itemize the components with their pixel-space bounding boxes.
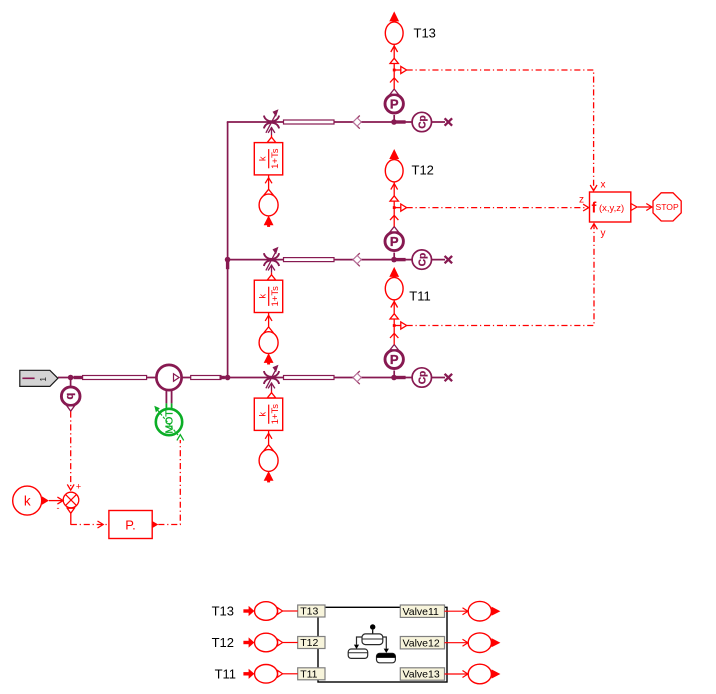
pipe L1 (tank to pump) xyxy=(83,376,147,380)
pipe L2 (pump to manifold) xyxy=(191,376,221,380)
signal wire k to summator xyxy=(49,497,63,504)
Cp sensor + closed end branch 3 xyxy=(391,368,452,387)
svg-text:y: y xyxy=(601,228,606,239)
svg-text:T11: T11 xyxy=(215,666,236,681)
wire: left vertical manifold xyxy=(227,122,229,378)
valve V3 with transfer function xyxy=(254,365,282,483)
svg-text:-: - xyxy=(57,503,60,513)
wire: pump supply line xyxy=(58,377,445,379)
port box T13 xyxy=(298,605,325,618)
signal wire f to STOP xyxy=(638,204,653,211)
summator output port xyxy=(67,508,74,513)
svg-text:T13: T13 xyxy=(300,606,318,618)
Cp sensor + closed end branch 1 xyxy=(391,112,452,131)
function block f(x,y,z) xyxy=(579,180,637,240)
svg-text:z: z xyxy=(579,195,584,206)
junction tank tee xyxy=(68,375,83,381)
pressure sensor column T11 xyxy=(385,267,407,378)
svg-text:STOP: STOP xyxy=(655,202,679,212)
pressure sensor column T12 xyxy=(385,149,407,260)
input connector T11 xyxy=(243,665,297,684)
statechart icon xyxy=(348,624,395,663)
svg-text:x: x xyxy=(601,180,606,191)
svg-text:d: d xyxy=(64,393,76,400)
svg-text:f: f xyxy=(592,201,597,217)
svg-text:Valve12: Valve12 xyxy=(403,637,440,649)
svg-text:T12: T12 xyxy=(412,163,434,178)
signal wire d to summator xyxy=(70,412,72,490)
signal wire T12 to f block z input xyxy=(407,204,589,211)
signal wire controller to motor xyxy=(158,435,183,525)
signal wire T11 to f block y input xyxy=(407,224,598,326)
svg-text:+: + xyxy=(76,482,81,492)
node marker branch 1 xyxy=(353,116,361,129)
pipe branch 2 xyxy=(284,258,335,262)
port box Valve13 xyxy=(400,668,444,681)
pump U1 xyxy=(156,365,181,390)
svg-text:k: k xyxy=(24,493,31,508)
svg-text:T13: T13 xyxy=(414,25,436,40)
shaft pump-motor xyxy=(166,390,171,408)
pressure sensor d xyxy=(61,378,80,411)
motor MOT xyxy=(154,406,182,435)
output connector Valve12 xyxy=(445,633,501,653)
svg-text:(x,y,z): (x,y,z) xyxy=(599,203,624,214)
svg-text:1: 1 xyxy=(38,377,48,382)
input connector T13 xyxy=(243,602,297,621)
junction manifold/branch3 xyxy=(220,375,231,381)
output connector Valve11 xyxy=(445,601,501,621)
svg-text:Valve11: Valve11 xyxy=(403,606,440,618)
node marker branch 3 xyxy=(353,371,361,384)
svg-text:T13: T13 xyxy=(212,604,234,619)
output connector Valve13 xyxy=(445,664,501,684)
node marker branch 2 xyxy=(353,253,361,266)
summator S1 xyxy=(57,482,82,514)
svg-text:T12: T12 xyxy=(300,637,318,649)
port box T12 xyxy=(298,637,325,650)
controller P. xyxy=(109,511,158,539)
statechart block xyxy=(318,607,447,682)
Cp sensor + closed end branch 2 xyxy=(391,250,452,269)
svg-text:T11: T11 xyxy=(409,289,430,304)
valve V2 with transfer function xyxy=(254,247,282,365)
port box Valve11 xyxy=(400,605,444,618)
wire: branch 2 line xyxy=(228,259,445,261)
pressure sensor column T13 xyxy=(385,11,407,122)
port box T11 xyxy=(298,668,325,681)
pipe branch 3 xyxy=(284,376,335,380)
junction manifold/branch2 xyxy=(225,257,231,269)
pipe branch 1 xyxy=(284,120,335,124)
signal wire summator to controller xyxy=(71,514,109,529)
valve V1 with transfer function xyxy=(254,109,282,227)
signal wire T13 to f block x input xyxy=(407,70,597,191)
constant k xyxy=(13,486,49,515)
svg-text:T11: T11 xyxy=(300,669,317,681)
boundary tag (pressure source) xyxy=(20,370,58,386)
svg-text:P.: P. xyxy=(125,517,136,532)
port box Valve12 xyxy=(400,637,444,650)
svg-text:T12: T12 xyxy=(212,635,234,650)
input connector T12 xyxy=(243,633,297,652)
wire: branch 1 line xyxy=(227,121,445,123)
STOP block xyxy=(653,193,681,221)
svg-text:Valve13: Valve13 xyxy=(403,669,440,681)
